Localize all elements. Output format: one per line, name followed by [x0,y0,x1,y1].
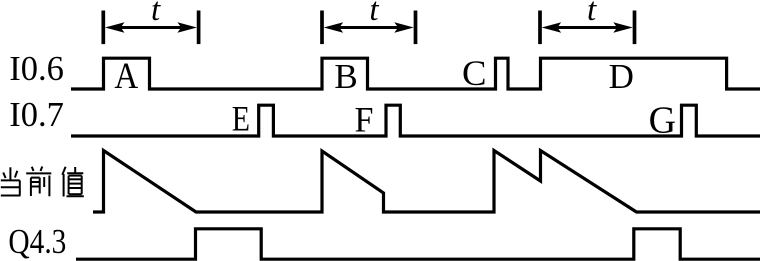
svg-text:F: F [355,100,374,140]
svg-text:t: t [587,0,597,28]
svg-text:B: B [334,57,357,96]
svg-text:E: E [232,100,250,139]
svg-text:I0.6: I0.6 [9,50,64,88]
svg-text:G: G [649,100,676,142]
svg-text:A: A [114,55,138,96]
svg-text:I0.7: I0.7 [9,96,64,134]
svg-text:C: C [462,53,487,93]
svg-text:t: t [151,0,161,28]
svg-text:t: t [369,0,379,28]
svg-text:Q4.3: Q4.3 [8,221,66,260]
svg-text:D: D [609,57,634,96]
